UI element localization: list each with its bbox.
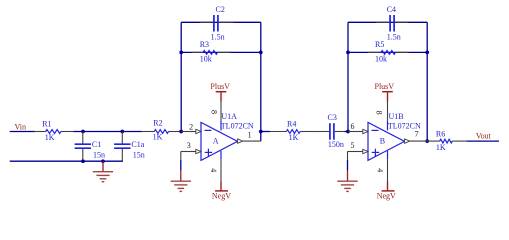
svg-text:8: 8 — [209, 110, 218, 114]
svg-text:C1: C1 — [92, 140, 101, 149]
pin 8 lead — [220, 102, 222, 131]
wire — [261, 131, 270, 133]
pin 1 number — [248, 131, 252, 140]
wire feedback top — [348, 21, 427, 23]
svg-text:1K: 1K — [289, 133, 299, 142]
wire R5 branch — [348, 51, 427, 53]
node junction — [179, 51, 183, 55]
svg-text:1K: 1K — [436, 143, 446, 152]
wire feedback right vertical — [426, 22, 428, 141]
svg-text:1K: 1K — [45, 133, 55, 142]
resistor R6 — [427, 129, 466, 152]
pin 3 lead — [181, 149, 201, 153]
wire — [73, 131, 141, 133]
capacitor C1 — [75, 132, 105, 162]
capacitor C1a — [114, 132, 145, 162]
svg-text:150n: 150n — [328, 140, 344, 149]
ground — [93, 161, 113, 182]
svg-text:U1A: U1A — [221, 112, 237, 121]
pin 5 lead — [348, 149, 369, 153]
power NegV — [377, 182, 396, 201]
wire to ground — [347, 152, 349, 171]
wire — [466, 140, 499, 142]
svg-text:C1a: C1a — [131, 140, 144, 149]
svg-text:5: 5 — [351, 141, 355, 150]
pin 7 lead output — [405, 139, 428, 143]
wire feedback left vertical — [347, 22, 349, 131]
wire — [344, 131, 348, 133]
ground — [337, 171, 357, 192]
wire to ground — [180, 152, 182, 171]
svg-text:Vin: Vin — [15, 122, 27, 131]
wire feedback left vertical — [180, 22, 182, 131]
node junction — [120, 130, 124, 134]
node junction — [81, 159, 85, 163]
svg-text:B: B — [380, 137, 385, 146]
svg-text:6: 6 — [351, 122, 355, 131]
net label Vin — [15, 122, 27, 131]
net label Vout — [476, 131, 492, 140]
svg-text:4: 4 — [376, 168, 385, 172]
resistor R4 — [270, 120, 316, 143]
svg-text:A: A — [213, 137, 219, 146]
wire feedback right vertical — [260, 22, 262, 141]
node junction — [259, 51, 263, 55]
ground — [171, 171, 191, 192]
svg-text:R6: R6 — [436, 129, 445, 138]
svg-text:15n: 15n — [93, 150, 105, 159]
pin 5 number — [351, 141, 355, 150]
svg-text:1.5n: 1.5n — [211, 33, 225, 42]
svg-text:2: 2 — [189, 122, 193, 131]
resistor R1 — [34, 120, 73, 143]
svg-text:R1: R1 — [42, 120, 51, 129]
resistor R2 — [141, 118, 181, 141]
svg-text:C4: C4 — [387, 5, 396, 14]
pin 1 lead output — [238, 139, 261, 143]
svg-text:R4: R4 — [287, 120, 296, 129]
svg-text:15n: 15n — [133, 150, 145, 159]
svg-text:10k: 10k — [200, 55, 212, 64]
svg-text:Vout: Vout — [476, 131, 492, 140]
node junction — [425, 51, 429, 55]
capacitor C2 — [200, 5, 234, 42]
pin 8 number — [374, 111, 383, 115]
svg-text:3: 3 — [187, 141, 191, 150]
node junction — [179, 130, 183, 134]
svg-text:8: 8 — [374, 111, 383, 115]
svg-text:7: 7 — [415, 129, 419, 138]
power PlusV — [375, 82, 395, 102]
svg-text:R2: R2 — [153, 118, 162, 127]
svg-text:R5: R5 — [375, 40, 384, 49]
pin 4 number — [209, 168, 218, 172]
resistor R3 — [191, 40, 230, 64]
node junction — [81, 130, 85, 134]
op-amp U1A — [201, 112, 254, 160]
svg-text:1.5n: 1.5n — [387, 32, 401, 41]
capacitor C4 — [376, 5, 408, 42]
svg-text:C2: C2 — [216, 5, 225, 14]
pin 8 number — [209, 110, 218, 114]
wire — [10, 131, 35, 133]
svg-text:PlusV: PlusV — [210, 82, 230, 91]
resistor R5 — [368, 40, 409, 63]
op-amp U1B — [368, 112, 421, 160]
svg-text:NegV: NegV — [377, 191, 396, 200]
pin 8 lead — [387, 102, 389, 131]
svg-text:PlusV: PlusV — [375, 82, 395, 91]
wire bottom return — [10, 160, 123, 162]
pin 4 lead — [387, 151, 389, 182]
node junction — [101, 159, 105, 163]
node junction — [346, 51, 350, 55]
svg-text:TL072CN: TL072CN — [221, 122, 254, 131]
pin 4 number — [376, 168, 385, 172]
pin 6 number — [351, 122, 355, 131]
svg-text:R3: R3 — [200, 40, 209, 49]
pin 7 number — [415, 129, 419, 138]
power PlusV — [210, 82, 230, 101]
power NegV — [212, 182, 231, 201]
svg-text:1K: 1K — [153, 133, 163, 142]
pin 4 lead — [220, 151, 222, 182]
pin 2 lead — [181, 129, 201, 133]
node junction — [346, 130, 350, 134]
svg-text:10k: 10k — [375, 54, 387, 63]
capacitor C3 — [316, 113, 345, 149]
pin 2 number — [189, 122, 193, 131]
svg-text:C3: C3 — [328, 113, 337, 122]
svg-text:1: 1 — [248, 131, 252, 140]
wire feedback top — [181, 21, 261, 23]
svg-text:U1B: U1B — [389, 112, 404, 121]
node junction — [259, 130, 263, 134]
svg-text:4: 4 — [209, 168, 218, 172]
node junction — [425, 139, 429, 143]
wire R3 branch — [181, 51, 261, 53]
pin 6 lead — [348, 129, 368, 133]
pin 3 number — [187, 141, 191, 150]
svg-text:NegV: NegV — [212, 191, 231, 200]
